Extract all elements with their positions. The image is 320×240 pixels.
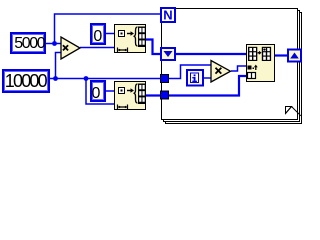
for-loop back layer 3 [166,13,302,124]
count terminal N [161,8,175,23]
initialize array 1 [115,25,146,53]
for-loop back layer 2 [164,11,300,122]
wire 10000 to tunnel [50,78,161,80]
wire constant-0-bottom to initialize-array-2 element [106,90,115,92]
array wire initialize-array-2 through tunnel to element input [146,76,246,96]
multiply function X1 [61,37,80,59]
tunnel 2 (array input) [161,91,169,99]
wire branch to multiply y-input [56,53,62,79]
array wire shift register to replace-array-subset [176,53,246,55]
svg-text:N: N [163,8,172,23]
wire multiply-2 output to index input [231,66,246,71]
svg-text:0: 0 [93,28,102,45]
wire multiply-1 output to initialize-array-1 [80,47,115,49]
wire 5000 to multiply x-input [46,43,61,45]
initialize array 2 [115,82,146,110]
junction dot at 10000 dimension branch [84,76,89,81]
wire branch to N count terminal [55,14,161,44]
wire tunnel-1 to multiply-2 x-input [169,65,211,79]
tunnel 1 (10000 input) [161,75,169,83]
numeric constant 5000 [11,33,46,53]
svg-text:10000: 10000 [5,71,48,91]
for-loop corner fold [286,107,301,116]
junction dot at 5000 branch [52,41,57,46]
numeric constant 10000 [3,70,49,92]
array wire initialize-array-1 to left shift register [146,40,160,55]
array wire replace-array-subset to right shift register [274,54,288,56]
wire i terminal to multiply-2 y-input [203,77,211,79]
iteration terminal i [187,70,203,86]
wire constant-0-top to initialize-array-1 element [106,33,115,35]
multiply function X2 [211,61,231,83]
right shift register [288,50,301,62]
wire branch to initialize-array-2 dimension input [86,79,115,105]
svg-text:0: 0 [92,85,101,102]
numeric constant 0 (top) [91,24,105,45]
numeric constant 0 (bottom) [91,81,105,102]
svg-text:5000: 5000 [14,35,45,52]
for-loop main frame [162,9,298,120]
junction dot at 10000 multiply branch [53,76,58,81]
replace array subset node [247,45,275,82]
left shift register [161,48,175,60]
